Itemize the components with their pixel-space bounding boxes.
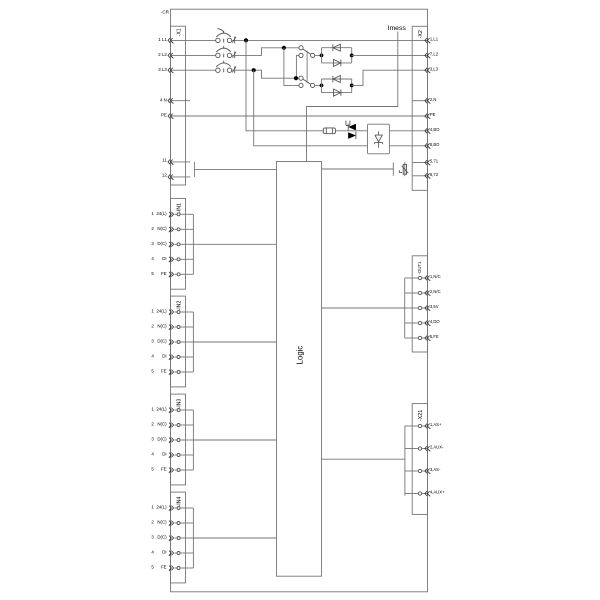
pin OUT1 1,N/C: [405, 274, 441, 281]
terminal strip IN3: [171, 394, 186, 485]
svg-text:N(C): N(C): [157, 324, 167, 329]
svg-text:D(C): D(C): [157, 241, 167, 246]
svg-text:FE: FE: [161, 467, 167, 472]
pin IN1-5 FE: [151, 271, 193, 277]
pin X2-1 L1: [425, 37, 439, 44]
wire OUT1 group bracket: [404, 278, 406, 338]
terminal strip X1: [171, 26, 186, 185]
terminal strip IN4: [171, 492, 186, 583]
terminal strip X21: [412, 404, 427, 515]
wire L1 tap down to fuse line: [246, 40, 323, 130]
wire IN4 group bracket: [192, 508, 194, 568]
wire IN1 group bracket: [192, 214, 194, 274]
circuit breaker pole L3: [216, 61, 236, 73]
pin IN2-1 24(L): [151, 309, 193, 315]
svg-text:3: 3: [151, 535, 154, 540]
wire L1 from X1: [171, 39, 216, 41]
pin X2-4 BO: [425, 127, 440, 134]
svg-text:5: 5: [151, 369, 154, 374]
pin IN1-1 24(L): [151, 211, 193, 217]
pin IN3-5 FE: [151, 467, 193, 473]
pin IN3-3 D(C): [151, 437, 193, 443]
svg-text:N(C): N(C): [157, 226, 167, 231]
svg-text:Imess: Imess: [388, 25, 407, 32]
probe bar left: [193, 162, 195, 177]
pin OUT1 4,DO: [405, 319, 441, 326]
relay contact K1 upper changeover: [299, 46, 315, 58]
overvoltage protector box U2: [368, 124, 390, 154]
wire IN2 group bracket: [192, 312, 194, 372]
svg-text:6,72: 6,72: [430, 172, 439, 177]
wire N stub right: [412, 100, 427, 102]
circuit breaker pole L1: [216, 28, 236, 43]
svg-text:-IN2: -IN2: [176, 301, 182, 311]
node upper pair left: [320, 54, 324, 58]
svg-text:-IN3: -IN3: [176, 399, 182, 409]
svg-text:1 L1: 1 L1: [158, 37, 167, 42]
pin IN3-2 N(C): [151, 422, 193, 428]
svg-text:1,L1: 1,L1: [430, 37, 439, 42]
wire cross-connect upper throw2: [296, 55, 299, 78]
svg-text:4,DO: 4,DO: [430, 319, 441, 324]
wire node C down to lower throw: [284, 48, 299, 86]
circuit breaker pole L2: [216, 46, 236, 58]
svg-text:FE: FE: [161, 369, 167, 374]
svg-text:PE: PE: [430, 112, 436, 117]
wire BO2 box to X2: [389, 145, 427, 147]
svg-text:1,N/C: 1,N/C: [430, 274, 441, 279]
pin IN2-3 D(C): [151, 339, 193, 345]
pin IN2-2 N(C): [151, 324, 193, 330]
pin IN1-2 N(C): [151, 226, 193, 232]
svg-text:FE: FE: [161, 565, 167, 570]
probe bar right: [392, 163, 394, 176]
wire L3 out to X2: [352, 70, 428, 85]
svg-text:N(C): N(C): [157, 520, 167, 525]
wire L1 breaker to X2: [232, 39, 428, 41]
pin X21 4,AUX+: [405, 490, 445, 497]
pin X21 1,AS+: [405, 422, 442, 429]
suppressor diode U (bidirectional TVS): [346, 121, 356, 139]
svg-text:2,N: 2,N: [430, 97, 437, 102]
antiparallel diode pair V2 (L3): [322, 76, 352, 97]
svg-text:24(L): 24(L): [156, 211, 167, 216]
wire lower common to diode pair: [315, 84, 322, 86]
pin IN1-4 DI: [151, 256, 193, 262]
svg-text:DI: DI: [162, 256, 166, 261]
wire X21 group bracket: [404, 426, 406, 496]
pin X2-5 71: [425, 159, 439, 166]
svg-text:24(L): 24(L): [156, 407, 167, 412]
node lower pair right: [350, 84, 354, 88]
node upper pair right: [350, 54, 354, 58]
wire L3 breaker to jog: [232, 70, 299, 78]
pin IN3-4 DI: [151, 452, 193, 458]
wire probe 11/12 stub 12: [171, 176, 190, 178]
svg-text:1: 1: [151, 211, 154, 216]
wire N stub left: [171, 100, 190, 102]
svg-text:D(C): D(C): [157, 437, 167, 442]
svg-text:4,BO: 4,BO: [430, 127, 440, 132]
wire probe left to logic: [194, 168, 276, 170]
wire PE: [171, 115, 428, 117]
fuse F1: [323, 128, 335, 134]
pin IN4-4 DI: [151, 550, 193, 556]
terminal strip IN1: [171, 198, 186, 289]
svg-text:24(L): 24(L): [156, 505, 167, 510]
svg-text:1: 1: [151, 505, 154, 510]
svg-text:4: 4: [151, 256, 154, 261]
svg-text:DI: DI: [162, 354, 166, 359]
pin IN4-5 FE: [151, 565, 193, 571]
device frame -CR: [171, 9, 428, 592]
svg-text:5: 5: [151, 271, 154, 276]
wire IN1 to logic: [193, 243, 276, 245]
pin IN4-3 D(C): [151, 535, 193, 541]
svg-text:2: 2: [151, 422, 154, 427]
svg-text:-OUT1: -OUT1: [417, 261, 422, 275]
svg-text:-IN1: -IN1: [176, 203, 182, 213]
wire 72 to X2: [412, 175, 427, 177]
pin X21 2,AUX-: [405, 445, 444, 452]
svg-text:2,AUX-: 2,AUX-: [430, 445, 444, 450]
relay contact K1 lower changeover: [299, 76, 315, 87]
wire upper common to diode pair: [315, 54, 322, 56]
pin X2-6 72: [425, 172, 439, 179]
svg-text:5: 5: [151, 467, 154, 472]
pin IN4-2 N(C): [151, 520, 193, 526]
svg-text:D(C): D(C): [157, 535, 167, 540]
svg-text:4: 4: [151, 354, 154, 359]
node L1 tap: [244, 38, 248, 42]
svg-text:1: 1: [151, 407, 154, 412]
terminal strip X2: [412, 26, 427, 190]
wire IN3 group bracket: [192, 410, 194, 470]
pin X2 PE: [425, 112, 436, 119]
pin X1-2 L2: [158, 52, 173, 58]
wire L2 from X1: [171, 54, 216, 56]
antiparallel diode pair V1 (L2): [322, 44, 352, 66]
wire logic to probe right: [322, 168, 394, 170]
wire L2 breaker to jog: [232, 48, 299, 56]
wire probe 11/12 stub 11: [171, 161, 190, 163]
svg-text:DI: DI: [162, 550, 166, 555]
pin X1 12: [162, 173, 173, 180]
svg-text:N(C): N(C): [157, 422, 167, 427]
svg-text:3: 3: [151, 339, 154, 344]
mechanical coupling link: [306, 51, 308, 84]
pin IN1-3 D(C): [151, 241, 193, 247]
pin OUT1 2,N/C: [405, 289, 441, 296]
node C L2 branch: [282, 46, 286, 50]
svg-text:12: 12: [162, 173, 167, 178]
node E L3 branch: [294, 76, 298, 80]
pin IN2-5 FE: [151, 369, 193, 375]
pin X2-8 BO: [425, 142, 440, 149]
svg-text:3,AS-: 3,AS-: [430, 467, 441, 472]
pin IN3-1 24(L): [151, 407, 193, 413]
svg-text:PE: PE: [161, 113, 167, 118]
svg-text:3,5V: 3,5V: [430, 304, 439, 309]
pin OUT1 5,FE: [405, 334, 439, 341]
wire 71 to X2: [412, 162, 427, 164]
pin X1-4 N: [160, 97, 173, 103]
svg-text:1,AS+: 1,AS+: [430, 422, 442, 427]
node lower pair left: [320, 84, 324, 88]
svg-text:3 L3: 3 L3: [158, 67, 167, 72]
svg-text:1: 1: [151, 309, 154, 314]
pin X2-7 L2: [425, 52, 439, 59]
pin OUT1 3,5V: [405, 304, 439, 311]
svg-text:2: 2: [151, 324, 154, 329]
pin X2-3 L3: [425, 66, 439, 73]
svg-text:4: 4: [151, 452, 154, 457]
svg-text:2: 2: [151, 520, 154, 525]
svg-text:5,FE: 5,FE: [430, 334, 439, 339]
terminal strip IN2: [171, 296, 186, 387]
pin X1-3 L3: [158, 67, 173, 73]
svg-text:3,L3: 3,L3: [430, 66, 439, 71]
logic block U3: [277, 162, 322, 577]
wire L2 out to X2: [352, 54, 428, 56]
svg-text:2: 2: [151, 226, 154, 231]
pin X21 3,AS-: [405, 467, 441, 474]
pin IN2-4 DI: [151, 354, 193, 360]
pin X1-1 L1: [158, 37, 173, 43]
wire IN2 to logic: [193, 341, 276, 343]
node L3 tap: [252, 68, 256, 72]
pin X1 PE: [161, 113, 173, 119]
pin X1 11: [162, 158, 173, 165]
wire IN3 to logic: [193, 439, 276, 441]
svg-text:11: 11: [162, 158, 167, 163]
svg-text:-IN4: -IN4: [176, 497, 182, 507]
svg-text:3: 3: [151, 241, 154, 246]
wire IN4 to logic: [193, 537, 276, 539]
svg-text:2 L2: 2 L2: [158, 52, 167, 57]
wire BO1 box to X2: [389, 130, 427, 132]
svg-text:DI: DI: [162, 452, 166, 457]
svg-text:FE: FE: [161, 271, 167, 276]
svg-text:-X21: -X21: [418, 410, 424, 421]
thermistor RT (temperature sensor): [399, 162, 408, 176]
svg-text:-X1: -X1: [177, 28, 183, 36]
svg-text:-CR: -CR: [161, 10, 170, 15]
svg-text:4,AUX+: 4,AUX+: [430, 490, 445, 495]
terminal strip OUT1: [412, 256, 427, 352]
pin X2-2 N: [425, 97, 437, 104]
svg-text:2,N/C: 2,N/C: [430, 289, 441, 294]
svg-text:4 N: 4 N: [160, 97, 167, 102]
svg-text:D(C): D(C): [157, 339, 167, 344]
svg-text:5,71: 5,71: [430, 159, 439, 164]
wire L3 tap down to BO2 line: [254, 70, 368, 146]
svg-text:24(L): 24(L): [156, 309, 167, 314]
svg-text:4: 4: [151, 550, 154, 555]
wire fuse to suppressor: [335, 130, 367, 132]
svg-text:3: 3: [151, 437, 154, 442]
svg-text:7,L2: 7,L2: [430, 52, 439, 57]
svg-text:-X2: -X2: [418, 30, 424, 38]
wire L3 from X1: [171, 69, 216, 71]
svg-text:8,BO: 8,BO: [430, 142, 440, 147]
svg-text:5: 5: [151, 565, 154, 570]
pin IN4-1 24(L): [151, 505, 193, 511]
svg-text:Logic: Logic: [295, 346, 304, 365]
wire logic to OUT1: [322, 307, 405, 309]
wire Imess measurement: [307, 32, 398, 162]
wire logic to X21: [322, 458, 405, 460]
